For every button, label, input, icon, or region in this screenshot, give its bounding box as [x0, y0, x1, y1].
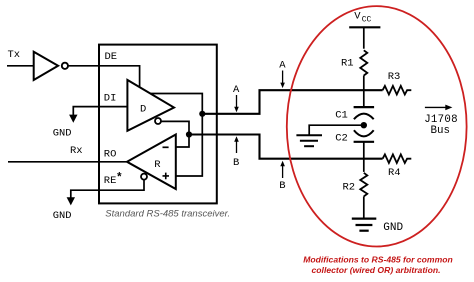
resistor R3 [383, 86, 412, 95]
svg-text:V: V [354, 11, 361, 23]
node A junction [199, 111, 205, 117]
svg-text:collector (wired OR) arbitrati: collector (wired OR) arbitration. [312, 265, 441, 275]
ground arrow (DI) [69, 115, 77, 123]
node C1-C2 junction [361, 122, 367, 128]
wire receiver + input to node A [176, 114, 203, 176]
wire line A [202, 90, 382, 114]
arrow B (near box) [234, 136, 239, 153]
svg-text:Bus: Bus [431, 125, 450, 137]
resistor R4 [383, 154, 412, 163]
svg-text:GND: GND [53, 127, 72, 139]
receiver U3 R [127, 135, 176, 190]
svg-text:A: A [233, 84, 240, 96]
svg-text:Rx: Rx [70, 145, 83, 157]
svg-text:Standard RS-485 transceiver.: Standard RS-485 transceiver. [105, 209, 230, 220]
inverter U1 [34, 52, 68, 80]
svg-text:B: B [233, 157, 239, 169]
wire C junction to earth ground [309, 125, 361, 135]
svg-text:*: * [116, 172, 123, 185]
node B junction [186, 131, 192, 137]
wire line B [189, 135, 383, 159]
svg-text:Tx: Tx [8, 49, 21, 61]
capacitor C2 [354, 130, 375, 142]
svg-text:DI: DI [104, 93, 117, 105]
label Vcc [354, 11, 371, 25]
wire RE to ground [71, 180, 144, 198]
wire driver output B [161, 121, 189, 134]
wire DI to ground [73, 107, 127, 116]
svg-text:D: D [140, 103, 146, 115]
svg-text:CC: CC [362, 15, 372, 24]
wire Vcc to R1 [363, 27, 365, 48]
transceiver box [99, 45, 217, 204]
svg-text:GND: GND [383, 222, 403, 234]
resistor R2 [360, 173, 367, 197]
driver U2 D [127, 80, 174, 131]
wire RO output [8, 161, 127, 163]
red oval highlight [287, 6, 467, 246]
svg-text:A: A [279, 60, 286, 72]
svg-text:R: R [154, 159, 161, 171]
svg-text:R4: R4 [388, 167, 401, 179]
svg-text:Modifications to RS-485 for co: Modifications to RS-485 for common [303, 254, 452, 264]
arrow B (bus side) [280, 161, 285, 178]
wire R1 to C1 [363, 76, 365, 108]
earth ground (C1/C2) [296, 135, 322, 146]
ground arrow (RE) [67, 197, 75, 205]
arrow A (near box) [234, 95, 239, 112]
driver inverting output bubble [155, 118, 161, 124]
svg-text:C1: C1 [335, 109, 348, 121]
svg-text:RE: RE [104, 175, 117, 187]
receiver enable bubble RE [141, 174, 147, 180]
svg-text:B: B [279, 180, 285, 192]
wire receiver - input to node B [176, 135, 189, 148]
wire C2 to R2 [363, 142, 365, 172]
ground (R2) [352, 219, 377, 231]
svg-text:R1: R1 [341, 57, 354, 69]
wire inverter output to DE pin and D enable [68, 66, 140, 88]
svg-text:GND: GND [53, 210, 72, 222]
Vcc rail bar [349, 26, 380, 28]
arrow J1708 bus [425, 105, 453, 111]
arrow A (bus side) [280, 71, 285, 89]
wire R2 to ground [363, 196, 365, 218]
label RE* [104, 172, 123, 187]
wire driver output A [150, 94, 202, 114]
wire Tx input [7, 65, 34, 67]
resistor R1 [360, 50, 367, 75]
svg-text:RO: RO [104, 149, 117, 161]
svg-text:C2: C2 [335, 133, 348, 145]
svg-text:R3: R3 [388, 71, 401, 83]
svg-text:R2: R2 [343, 181, 356, 193]
capacitor C1 [354, 107, 375, 119]
svg-text:DE: DE [105, 51, 118, 63]
